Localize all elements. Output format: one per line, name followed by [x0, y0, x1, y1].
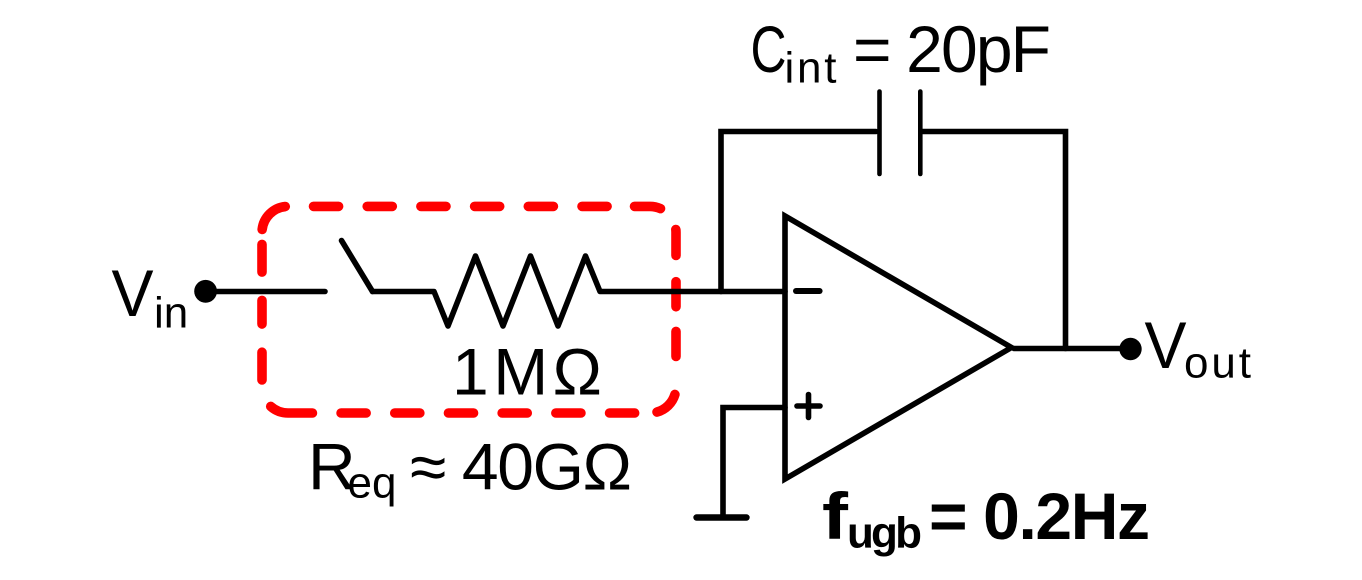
svg-text:1MΩ: 1MΩ	[452, 335, 602, 409]
svg-text:C: C	[751, 12, 787, 86]
svg-text:int: int	[785, 44, 837, 93]
svg-text:out: out	[1184, 339, 1251, 388]
svg-text:V: V	[1145, 308, 1187, 382]
svg-text:eq: eq	[348, 459, 397, 508]
svg-text:V: V	[112, 256, 154, 330]
svg-text:≈ 40GΩ: ≈ 40GΩ	[410, 430, 632, 504]
svg-text:f: f	[822, 479, 849, 553]
svg-text:in: in	[154, 289, 188, 338]
svg-text:= 0.2Hz: = 0.2Hz	[929, 479, 1150, 553]
svg-text:= 20pF: = 20pF	[853, 12, 1051, 86]
svg-text:ugb: ugb	[847, 509, 922, 558]
